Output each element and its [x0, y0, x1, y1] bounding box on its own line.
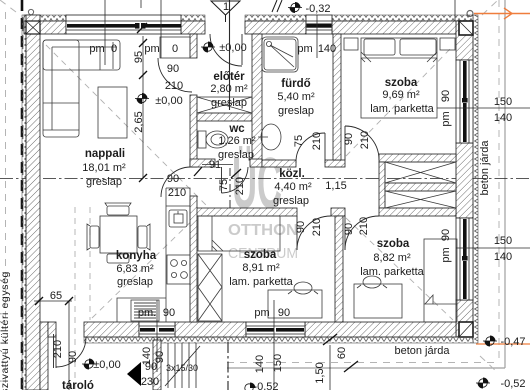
door előtér-nappali: [158, 58, 192, 92]
wall nappali/WC lower: [190, 95, 197, 167]
dimension ticks: [35, 23, 358, 372]
chair bottom: [107, 254, 129, 263]
svg-text:tároló: tároló: [62, 380, 94, 390]
nightstand left: [344, 38, 358, 50]
svg-text:210: 210: [359, 131, 371, 149]
entrance triangle marker: [211, 1, 240, 22]
svg-text:±0,00: ±0,00: [219, 42, 246, 54]
svg-text:szoba: szoba: [377, 238, 410, 250]
wardrobe X szoba 8,91: [198, 254, 222, 321]
svg-text:4,40 m²: 4,40 m²: [274, 181, 312, 193]
wall közl./szoba 8,82: [379, 208, 456, 216]
entrance door: [241, 34, 243, 65]
svg-text:±0,00: ±0,00: [93, 359, 120, 371]
svg-text:210: 210: [168, 187, 186, 199]
svg-text:pm: pm: [440, 247, 452, 262]
svg-text:95: 95: [133, 51, 145, 63]
svg-text:2,65: 2,65: [133, 111, 145, 132]
door tároló: [53, 334, 55, 368]
svg-text:90: 90: [343, 133, 355, 145]
svg-text:90: 90: [167, 173, 179, 185]
door szoba TR: [344, 126, 346, 160]
window top (fürdő pm140): [306, 15, 332, 34]
svg-text:140: 140: [254, 355, 266, 373]
svg-text:pm: pm: [440, 111, 452, 126]
outer wall top: insulation zigzag: [24, 15, 473, 21]
outer wall top: hatch segments: [24, 21, 459, 34]
wall előtér/WC: [197, 113, 252, 121]
svg-text:8,91 m²: 8,91 m²: [242, 262, 280, 274]
svg-text:pm.: pm.: [138, 307, 156, 319]
svg-text:pm: pm: [297, 43, 312, 55]
chair right: [138, 226, 147, 248]
svg-text:210: 210: [311, 132, 323, 150]
svg-text:beton járda: beton járda: [479, 140, 491, 196]
svg-text:szoba: szoba: [385, 77, 418, 89]
door szoba 8,82: [344, 216, 346, 250]
chair left: [90, 226, 99, 248]
svg-text:90: 90: [295, 221, 307, 233]
corner column top-left: [26, 21, 40, 34]
cropped symbol marks top: [272, 0, 282, 12]
wall nappali/előtér upper: [190, 34, 197, 58]
előtér gardrób X-box: [197, 97, 252, 113]
svg-text:greslap: greslap: [278, 105, 314, 117]
washing machine: [131, 300, 159, 321]
sofa L-shape nappali: [43, 40, 120, 70]
washbasin fürdő: [261, 124, 281, 150]
svg-text:150: 150: [494, 235, 512, 247]
svg-text:±0,00: ±0,00: [155, 95, 182, 107]
chair szoba 8,91: [294, 282, 312, 294]
desk szoba 8,91: [268, 290, 322, 318]
furniture: [43, 37, 190, 322]
window bottom (konyha pm90): [139, 322, 175, 337]
dining table: [100, 216, 137, 253]
kitchen counter L: [117, 188, 190, 322]
bed szoba 8,91: [198, 216, 280, 251]
door konyha-közl.: [161, 167, 191, 197]
svg-text:1: 1: [223, 1, 229, 13]
door fürdő: [324, 133, 326, 163]
door WC: [221, 167, 223, 193]
svg-text:-0,47: -0,47: [500, 336, 525, 348]
svg-text:0: 0: [111, 43, 117, 55]
svg-text:90: 90: [343, 223, 355, 235]
door arcs: [54, 34, 380, 368]
svg-text:60: 60: [336, 347, 348, 359]
level crosshair nappali: [135, 93, 149, 104]
svg-text:6,83 m²: 6,83 m²: [116, 263, 154, 275]
window bottom (szoba 8,91 pm90): [246, 322, 305, 337]
wall WC/közl. west piece: [190, 159, 215, 167]
roof hip dashed diagonals: [46, 45, 453, 390]
svg-text:150: 150: [494, 96, 512, 108]
svg-text:75: 75: [218, 179, 230, 191]
roof overhang dashed heavy line left: [21, 0, 24, 390]
svg-text:1,15: 1,15: [325, 180, 346, 192]
svg-text:0: 0: [172, 43, 178, 55]
svg-text:9,69 m²: 9,69 m²: [382, 89, 420, 101]
chair top: [107, 206, 129, 215]
outer wall bottom: hatch segments: [48, 322, 456, 337]
svg-text:230: 230: [141, 376, 159, 388]
outer wall right: hatch segments: [456, 21, 473, 337]
site walkway gray lines: [227, 0, 505, 368]
svg-text:210: 210: [358, 217, 370, 235]
wall konyha/szoba 8,91: [190, 196, 197, 322]
svg-text:lam. parketta: lam. parketta: [229, 276, 293, 288]
svg-text:lam. parketta: lam. parketta: [360, 266, 424, 278]
svg-text:90: 90: [67, 351, 79, 363]
svg-text:pm: pm: [144, 43, 159, 55]
svg-text:90: 90: [154, 351, 166, 363]
svg-text:90: 90: [167, 63, 179, 75]
wall előtér+WC/fürdő: [252, 34, 262, 161]
svg-text:140: 140: [318, 43, 336, 55]
wall szoba 8,91/8,82: [335, 216, 343, 322]
svg-text:18,01 m²: 18,01 m²: [82, 162, 126, 174]
orange level line bottom right: [476, 343, 530, 345]
stove 4 burners: [167, 255, 190, 284]
svg-text:90: 90: [440, 229, 452, 241]
svg-text:90: 90: [163, 307, 175, 319]
svg-text:-0,52: -0,52: [500, 378, 525, 390]
svg-text:90: 90: [278, 307, 290, 319]
shower fürdő: [262, 37, 298, 72]
svg-text:nappali: nappali: [85, 148, 125, 160]
svg-text:5,40 m²: 5,40 m²: [277, 91, 315, 103]
svg-text:greslap: greslap: [117, 276, 153, 288]
svg-text:-0,52: -0,52: [253, 381, 278, 390]
svg-text:210: 210: [52, 340, 64, 358]
closet X lower: [385, 191, 456, 208]
wall fürdő/közl.: [262, 160, 296, 167]
level crosshair -0,52 right: [476, 378, 490, 389]
section dash-dot line horizontal: [0, 178, 530, 180]
orange marker arrow top right: [474, 8, 530, 19]
bed szoba TR: [361, 38, 437, 118]
svg-text:75: 75: [293, 135, 305, 147]
svg-text:pm: pm: [254, 307, 269, 319]
wall közl. jamb east of fürdő door: [325, 160, 345, 167]
svg-text:210: 210: [311, 218, 323, 236]
window right B (szoba 8,82): [456, 218, 473, 300]
small circle top-left: [28, 9, 33, 14]
svg-text:140: 140: [494, 112, 512, 124]
wall closet west: [379, 162, 385, 208]
closet X upper: [385, 162, 456, 183]
svg-text:greslap: greslap: [86, 176, 122, 188]
svg-text:greslap: greslap: [273, 195, 309, 207]
svg-text:greslap: greslap: [211, 97, 247, 109]
svg-text:140: 140: [141, 347, 153, 365]
svg-text:90: 90: [440, 90, 452, 102]
chair szoba 8,82: [363, 276, 381, 288]
nightstand right: [440, 38, 455, 50]
svg-text:OTTHON: OTTHON: [228, 222, 298, 239]
outer wall left: [26, 15, 40, 390]
svg-text:konyha: konyha: [116, 250, 157, 262]
watermark OC monogram: [228, 144, 298, 262]
desk szoba 8,82 east: [424, 239, 457, 322]
door szoba 8,91: [296, 216, 298, 250]
svg-text:pm: pm: [89, 43, 104, 55]
window right A (szoba 9,69): [456, 60, 473, 143]
coffee table: [98, 87, 127, 138]
svg-text:91: 91: [209, 159, 221, 171]
wall between BM and BR doors: [331, 208, 345, 216]
svg-text:wc: wc: [228, 123, 245, 135]
desk szoba 8,82 south: [354, 284, 402, 318]
svg-text:szoba: szoba: [244, 249, 277, 261]
WC toilet: [198, 131, 206, 148]
level crosshair -0,32: [288, 2, 302, 13]
wall közl./szoba 8,91: [190, 208, 297, 216]
svg-text:-0,32: -0,32: [305, 3, 330, 15]
cabinet with 0 label: [160, 37, 190, 58]
svg-text:lam. parketta: lam. parketta: [370, 103, 434, 115]
svg-text:előtér: előtér: [213, 71, 245, 83]
corner column bottom-right: [459, 322, 473, 337]
washing machine stripes: [134, 303, 156, 318]
svg-text:1,26 m²: 1,26 m²: [218, 135, 256, 147]
wall fürdő/szoba TR: [333, 34, 341, 160]
svg-text:greslap: greslap: [218, 149, 254, 161]
svg-text:140: 140: [494, 251, 512, 263]
section dash-dot line vertical bottom: [227, 342, 229, 390]
svg-text:1,50: 1,50: [314, 362, 326, 383]
svg-text:65: 65: [50, 290, 62, 302]
level crosshair -0,52 bottom center (cropped): [245, 383, 256, 390]
interior walls: [153, 34, 456, 390]
level crosshair tároló: [82, 359, 96, 370]
wall WC/közl. east piece: [250, 159, 262, 167]
svg-text:3x15/30: 3x15/30: [166, 363, 198, 373]
corner column top-right: [459, 21, 473, 35]
level crosshair -0,47: [483, 336, 497, 347]
svg-text:szivattyú kültéri egység: szivattyú kültéri egység: [0, 271, 11, 390]
window top-left (nappali): [66, 15, 181, 34]
svg-text:közl.: közl.: [279, 168, 305, 180]
svg-text:150: 150: [272, 354, 284, 372]
svg-text:8,82 m²: 8,82 m²: [373, 252, 411, 264]
svg-text:210: 210: [234, 177, 246, 195]
svg-text:beton járda: beton járda: [394, 345, 450, 357]
tároló wall east: [153, 340, 161, 390]
stairs 3x15/30: [165, 343, 200, 388]
wall szoba TR south / closet north: [379, 154, 456, 162]
section triangle marker bottom: [127, 362, 141, 386]
closet shelf band: [385, 183, 456, 191]
level crosshair +-0,00 előtér: [201, 42, 215, 53]
sink: [169, 210, 187, 227]
svg-text:fürdő: fürdő: [281, 78, 310, 90]
svg-text:2,80 m²: 2,80 m²: [210, 83, 248, 95]
svg-text:210: 210: [165, 80, 183, 92]
